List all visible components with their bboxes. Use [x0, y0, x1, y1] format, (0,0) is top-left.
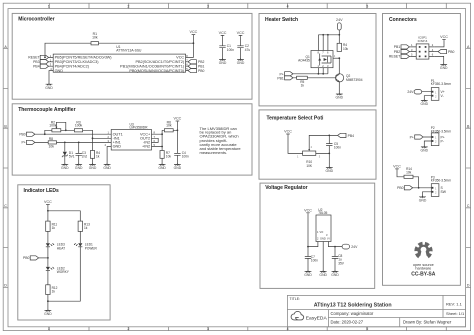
svg-text:LMV358IDR: LMV358IDR [130, 126, 149, 130]
svg-text:PB4: PB4 [33, 65, 40, 69]
svg-text:C: C [4, 204, 7, 208]
svg-text:Indicator LEDs: Indicator LEDs [24, 188, 60, 194]
svg-text:1: 1 [48, 4, 50, 8]
svg-text:100n: 100n [182, 155, 189, 159]
svg-text:VI: VI [327, 237, 330, 241]
svg-text:GND: GND [320, 237, 326, 241]
svg-text:5V1: 5V1 [69, 155, 75, 159]
svg-text:PB4: PB4 [348, 134, 355, 138]
svg-text:P+: P+ [21, 141, 25, 145]
svg-text:Voltage Regulator: Voltage Regulator [265, 185, 307, 191]
svg-text:PB0: PB0 [19, 133, 26, 137]
svg-text:D: D [467, 284, 470, 288]
svg-text:TITLE:: TITLE: [290, 297, 301, 301]
svg-text:PB0: PB0 [23, 256, 30, 260]
svg-text:1k: 1k [84, 226, 88, 230]
svg-text:10K: 10K [306, 164, 313, 168]
svg-text:2n2: 2n2 [82, 155, 88, 159]
svg-text:HEAT: HEAT [57, 246, 65, 250]
svg-text:PB0(MOSI/AIN0/OC0A/PCINT0): PB0(MOSI/AIN0/OC0A/PCINT0) [129, 69, 185, 73]
svg-text:C: C [467, 204, 470, 208]
svg-text:PB0: PB0 [397, 186, 404, 190]
svg-text:10k: 10k [166, 155, 172, 159]
svg-text:ATTINY13A-SSU: ATTINY13A-SSU [116, 48, 142, 52]
svg-text:hardware: hardware [415, 267, 431, 271]
svg-text:24V: 24V [336, 18, 343, 22]
svg-text:1k: 1k [96, 155, 100, 159]
svg-text:10k: 10k [92, 35, 98, 39]
svg-text:2: 2 [127, 327, 129, 331]
svg-text:35V: 35V [338, 261, 345, 265]
svg-text:VO: VO [320, 230, 324, 234]
svg-text:RESET: RESET [28, 56, 39, 60]
svg-text:KF350-3.5mm: KF350-3.5mm [431, 179, 452, 183]
svg-text:100n: 100n [334, 146, 341, 150]
svg-text:10k: 10k [406, 170, 412, 174]
svg-text:PB5(PCINT5/RESET#/ADC0/dW): PB5(PCINT5/RESET#/ADC0/dW) [55, 56, 113, 60]
svg-text:PB0: PB0 [448, 50, 455, 54]
svg-text:VCC: VCC [176, 56, 184, 60]
svg-text:PB3: PB3 [33, 60, 40, 64]
svg-text:AO4435: AO4435 [298, 59, 310, 63]
svg-text:PB2: PB2 [198, 60, 205, 64]
svg-text:24V: 24V [407, 90, 414, 94]
svg-text:WORKY: WORKY [57, 270, 70, 274]
svg-text:PB1: PB1 [394, 45, 401, 49]
svg-text:CC-BY-SA: CC-BY-SA [411, 271, 436, 277]
svg-text:PB1: PB1 [198, 65, 205, 69]
svg-text:PB1: PB1 [277, 76, 284, 80]
svg-text:P-: P- [441, 139, 444, 143]
svg-text:PB2: PB2 [394, 50, 401, 54]
svg-text:78L05: 78L05 [318, 211, 327, 215]
svg-text:EasyEDA: EasyEDA [306, 316, 328, 322]
svg-text:Microcontroller: Microcontroller [18, 16, 54, 22]
svg-text:V-: V- [441, 94, 444, 98]
svg-text:ATtiny13 T12 Soldering Station: ATtiny13 T12 Soldering Station [314, 302, 392, 308]
svg-text:1: 1 [48, 327, 50, 331]
svg-text:Temperature Select Poti: Temperature Select Poti [267, 115, 324, 121]
svg-text:10k: 10k [343, 47, 349, 51]
svg-text:10k: 10k [48, 145, 54, 149]
svg-text:24V: 24V [351, 245, 358, 249]
svg-text:10k: 10k [166, 124, 172, 128]
svg-text:MMBT3904: MMBT3904 [346, 78, 363, 82]
svg-text:Connectors: Connectors [389, 17, 417, 23]
svg-text:5: 5 [366, 4, 368, 8]
svg-text:100k: 100k [49, 124, 57, 128]
svg-text:PB3(PCINT3/CLKI/ADC3): PB3(PCINT3/CLKI/ADC3) [55, 60, 100, 64]
svg-text:PB1(MISO/AIN1/OC0B/INT0/PCINT1: PB1(MISO/AIN1/OC0B/INT0/PCINT1) [120, 64, 185, 68]
svg-text:5: 5 [366, 327, 368, 331]
svg-text:Sheet: 1/1: Sheet: 1/1 [446, 311, 465, 316]
svg-text:R8: R8 [49, 137, 53, 141]
svg-text:100n: 100n [311, 259, 318, 263]
svg-text:PB0: PB0 [198, 69, 205, 73]
svg-text:47u: 47u [245, 48, 251, 52]
svg-text:2: 2 [127, 4, 129, 8]
svg-text:P+: P+ [410, 135, 414, 139]
svg-text:RESET: RESET [389, 55, 400, 59]
svg-text:KF350-3.5mm: KF350-3.5mm [431, 82, 452, 86]
svg-text:Thermocouple Amplifier: Thermocouple Amplifier [18, 107, 75, 113]
svg-text:POWER: POWER [85, 246, 98, 250]
svg-text:PB2(SCK/ADC1/T0/PCINT2): PB2(SCK/ADC1/T0/PCINT2) [135, 60, 184, 64]
svg-text:1k: 1k [52, 290, 56, 294]
svg-text:SW: SW [441, 190, 447, 194]
svg-text:ICSP-6: ICSP-6 [418, 39, 428, 43]
svg-text:GND: GND [55, 69, 64, 73]
svg-text:3: 3 [207, 327, 209, 331]
svg-text:GND: GND [113, 145, 122, 149]
svg-text:1k: 1k [301, 83, 305, 87]
svg-text:4: 4 [287, 327, 289, 331]
svg-text:Company: wagiminator: Company: wagiminator [331, 311, 374, 316]
svg-text:3: 3 [207, 4, 209, 8]
svg-text:1k: 1k [52, 226, 56, 230]
svg-text:Heater Switch: Heater Switch [265, 17, 298, 23]
svg-text:PB4(PCINT4/ADC2): PB4(PCINT4/ADC2) [55, 64, 90, 68]
svg-text:+IN2: +IN2 [142, 145, 150, 149]
svg-text:D: D [4, 284, 7, 288]
svg-text:REV: 1.1: REV: 1.1 [446, 301, 463, 306]
svg-text:measurements.: measurements. [200, 150, 228, 155]
svg-text:100n: 100n [227, 48, 234, 52]
svg-text:Date: 2020-02-27: Date: 2020-02-27 [331, 319, 364, 324]
svg-text:4: 4 [287, 4, 289, 8]
svg-text:Drawn By: Stefan Wagner: Drawn By: Stefan Wagner [403, 319, 452, 324]
svg-text:100k: 100k [75, 124, 83, 128]
